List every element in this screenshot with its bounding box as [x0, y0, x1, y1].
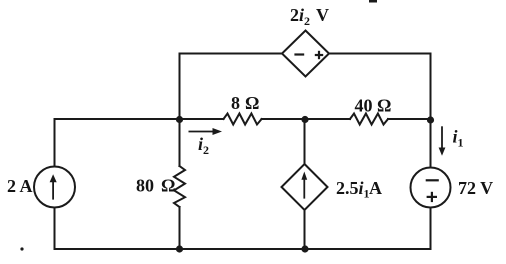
svg-text:V: V	[316, 5, 329, 25]
svg-text:2i2: 2i2	[290, 5, 310, 28]
svg-text:8 Ω: 8 Ω	[231, 93, 259, 113]
svg-text:A: A	[369, 178, 382, 198]
svg-text:80 Ω: 80 Ω	[136, 176, 175, 196]
svg-text:72 V: 72 V	[458, 178, 493, 198]
svg-text:i2: i2	[198, 134, 209, 157]
svg-text:2 A: 2 A	[7, 176, 33, 196]
svg-text:40 Ω: 40 Ω	[355, 96, 392, 116]
svg-text:2.5i1: 2.5i1	[336, 178, 370, 201]
svg-text:i1: i1	[453, 127, 464, 150]
